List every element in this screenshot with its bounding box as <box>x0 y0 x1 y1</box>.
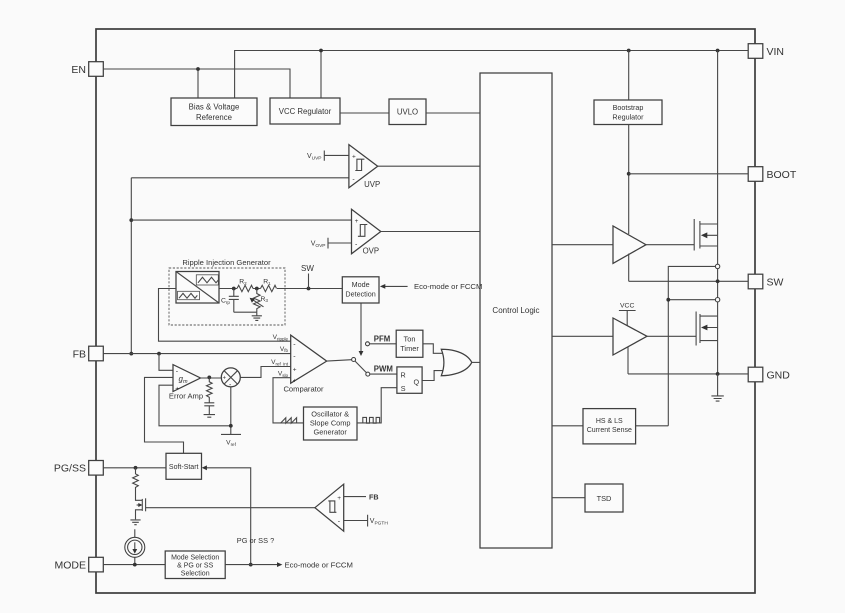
svg-text:Ripple Injection Generator: Ripple Injection Generator <box>182 258 271 267</box>
svg-text:R: R <box>401 371 406 380</box>
svg-text:Vslp: Vslp <box>278 371 289 378</box>
svg-text:SW: SW <box>301 264 314 273</box>
svg-text:VPGTH: VPGTH <box>370 518 389 527</box>
svg-text:+: + <box>352 153 356 160</box>
resistor R2 <box>237 279 253 292</box>
svg-text:Control Logic: Control Logic <box>492 306 539 315</box>
wire PG/SS pin to Soft-Start <box>103 466 166 470</box>
gate OR <box>441 349 472 375</box>
pin BOOT <box>748 167 797 182</box>
op-amp error amp <box>169 365 203 401</box>
wire UVP output to control logic <box>378 165 480 167</box>
svg-text:BOOT: BOOT <box>767 169 797 181</box>
ground compensation <box>204 415 215 418</box>
comparator PG (power good) <box>315 484 344 531</box>
chip outline frame <box>96 29 755 593</box>
svg-text:OVP: OVP <box>363 247 379 256</box>
wire Vslp from oscillator to comparator <box>273 378 304 423</box>
svg-text:R3: R3 <box>261 296 269 303</box>
svg-text:HS & LS: HS & LS <box>596 418 623 425</box>
wire UVP inverting input <box>131 177 349 179</box>
block VCC Regulator <box>270 98 340 124</box>
svg-text:VOVP: VOVP <box>311 241 326 250</box>
wire control logic to HS driver <box>552 244 613 246</box>
wire HS driver low rail to SW <box>628 254 630 282</box>
svg-text:+: + <box>293 366 297 373</box>
node HS current sense tap <box>715 264 719 268</box>
svg-text:+: + <box>355 218 359 225</box>
svg-text:+: + <box>337 495 341 502</box>
wire HS driver to HS MOSFET gate <box>646 244 694 246</box>
svg-text:UVLO: UVLO <box>397 108 418 117</box>
svg-text:Mode: Mode <box>352 280 370 289</box>
svg-text:Selection: Selection <box>181 571 210 578</box>
wire mode selection output (arrow to Eco-mode or FCCM) <box>225 560 353 569</box>
svg-text:EN: EN <box>71 64 86 76</box>
block Mode Selection & PG or SS Selection <box>165 551 225 579</box>
svg-text:Current Sense: Current Sense <box>587 427 632 434</box>
svg-text:PFM: PFM <box>374 334 390 343</box>
transistor PG MOSFET <box>136 498 146 519</box>
wire FB net <box>103 352 290 356</box>
svg-text:VIN: VIN <box>767 46 785 58</box>
block TSD <box>585 484 623 512</box>
wire multiplier to comparator Vref_int <box>240 367 290 378</box>
wire PFM contact to Ton Timer <box>370 343 397 345</box>
node LS current sense tap <box>715 298 719 302</box>
wire ripple RC net <box>219 287 342 291</box>
ground under R3 <box>252 312 262 320</box>
svg-text:Vref_int: Vref_int <box>271 359 289 366</box>
wire GND net <box>628 372 748 376</box>
sawtooth waveform icon <box>281 418 297 424</box>
svg-text:Vfb: Vfb <box>280 346 289 353</box>
capacitor compensation <box>204 399 214 414</box>
op-amp LS gate driver <box>613 318 647 355</box>
block Bias & Voltage Reference <box>171 98 257 126</box>
ground PG MOSFET <box>130 520 140 525</box>
svg-text:VUVP: VUVP <box>307 153 322 162</box>
node VUVP reference <box>307 151 349 162</box>
pin PG/SS <box>54 461 103 476</box>
svg-text:VCC: VCC <box>620 303 634 310</box>
multiplier/summer node <box>221 368 240 389</box>
wire OR gate to control logic <box>472 361 480 363</box>
svg-text:Ton: Ton <box>404 335 416 344</box>
wire soft-start to error amp mid input <box>145 377 184 453</box>
wire VIN rail to bootstrap regulator <box>628 51 630 101</box>
svg-text:Slope Comp: Slope Comp <box>310 419 351 428</box>
block RS latch <box>397 367 422 393</box>
wire comparator output to switch pivot <box>327 360 352 361</box>
svg-text:Bootstrap: Bootstrap <box>613 103 644 112</box>
node VPGTH reference <box>344 515 389 527</box>
svg-text:& PG or SS: & PG or SS <box>177 563 214 570</box>
resistor compensation <box>207 377 213 399</box>
wire UVLO to control logic <box>426 112 480 114</box>
wire current sense taps riser <box>666 266 715 425</box>
switch PFM/PWM select <box>352 334 393 376</box>
svg-text:TSD: TSD <box>597 494 612 503</box>
node FB input to PG comparator <box>344 493 379 502</box>
wire MODE pin to mode selection <box>103 563 165 567</box>
svg-text:Soft-Start: Soft-Start <box>169 464 199 471</box>
pulse waveform icon <box>363 417 380 423</box>
comparator main PWM comparator <box>283 335 326 393</box>
svg-text:MODE: MODE <box>55 560 87 572</box>
svg-text:Error Amp: Error Amp <box>169 391 203 400</box>
svg-text:Detection: Detection <box>345 290 375 299</box>
wire PG comparator output to MOSFET gate <box>146 507 315 509</box>
ground power stage <box>711 374 723 401</box>
svg-text:Vripple: Vripple <box>273 334 289 341</box>
wire LS driver low rail to GND <box>627 347 629 374</box>
svg-text:Eco-mode or FCCM: Eco-mode or FCCM <box>285 560 353 569</box>
svg-text:Oscillator &: Oscillator & <box>311 410 349 419</box>
node VOVP reference <box>311 238 352 250</box>
wire PWM contact to RS latch R <box>370 373 397 375</box>
block Control Logic <box>480 73 552 548</box>
svg-text:Reference: Reference <box>196 113 232 122</box>
block Soft-Start <box>166 453 202 479</box>
wire VCC Regulator to UVLO <box>340 112 389 114</box>
svg-text:PG or SS ?: PG or SS ? <box>237 536 274 545</box>
svg-text:SW: SW <box>767 277 784 289</box>
block UVLO <box>389 99 426 125</box>
transistor HS MOSFET <box>694 219 717 251</box>
wire EN to bias/vcc-regulator <box>103 67 290 98</box>
ripple injection generator dashed box <box>169 258 285 325</box>
block Ton Timer <box>396 330 423 357</box>
op-amp HS gate driver <box>613 226 646 263</box>
node VCC for LS driver <box>619 303 636 326</box>
comparator UVP <box>349 145 380 189</box>
node Vref <box>221 387 241 447</box>
pin GND <box>748 367 790 382</box>
wire RS latch Q to OR gate <box>422 371 446 381</box>
block Bootstrap Regulator <box>594 100 662 125</box>
comparator OVP <box>352 209 381 255</box>
wire error amp + input to Vref node <box>159 385 231 426</box>
block Mode Detection <box>342 277 379 303</box>
wire control logic to current sense <box>552 425 583 427</box>
wire current sense to riser <box>636 425 669 427</box>
svg-text:Q: Q <box>414 378 420 387</box>
svg-text:PWM: PWM <box>374 365 393 374</box>
wire VIN rail <box>235 49 749 98</box>
wire VIN to HS MOSFET drain chain <box>717 51 719 374</box>
wire Ton Timer to OR gate <box>423 344 446 354</box>
wire Crp to R3 bottom <box>234 311 257 313</box>
node SW label tick <box>301 264 314 289</box>
svg-text:Mode Selection: Mode Selection <box>171 555 219 562</box>
ripple waveform transform block <box>176 272 219 304</box>
wire Eco-mode or FCCM into Mode Detection (arrow) <box>380 282 482 291</box>
svg-text:S: S <box>401 384 406 393</box>
current source MODE detect <box>125 529 145 564</box>
pin VIN <box>748 44 784 59</box>
wire FB to error amp inverting input <box>159 354 173 371</box>
svg-text:GND: GND <box>767 370 791 382</box>
svg-text:Generator: Generator <box>314 428 348 437</box>
block Oscillator & Slope Comp Generator <box>304 407 358 440</box>
wire bootstrap to BOOT and HS driver rail <box>627 125 631 235</box>
resistor PG pull-up <box>133 468 139 499</box>
resistor R3 (adjustable) <box>250 289 269 313</box>
svg-text:+: + <box>293 377 297 384</box>
svg-text:FB: FB <box>369 493 379 502</box>
transistor LS MOSFET <box>696 312 718 346</box>
wire LS driver to LS MOSFET gate <box>647 335 696 337</box>
wire mode detection to switch (arrow) <box>359 303 364 356</box>
wire PG-or-SS select into Soft-Start (arrow) <box>202 465 274 566</box>
svg-text:Vref: Vref <box>226 440 236 447</box>
svg-text:Timer: Timer <box>400 344 419 353</box>
pin EN <box>71 62 103 77</box>
svg-text:Crp: Crp <box>221 298 230 305</box>
svg-text:Regulator: Regulator <box>612 113 644 122</box>
svg-text:FB: FB <box>73 349 86 361</box>
svg-text:VCC Regulator: VCC Regulator <box>279 107 332 116</box>
svg-text:UVP: UVP <box>364 180 380 189</box>
svg-text:R2: R2 <box>239 279 247 286</box>
svg-text:Bias & Voltage: Bias & Voltage <box>189 103 240 112</box>
capacitor Crp <box>221 289 239 313</box>
node FB riser to UVP/OVP <box>129 178 133 356</box>
wire control logic to LS driver <box>552 335 613 337</box>
block HS & LS Current Sense <box>583 409 636 444</box>
wire OVP output to control logic <box>381 231 480 233</box>
wire BOOT net <box>629 173 749 175</box>
pin SW <box>748 274 783 289</box>
pin FB <box>73 346 104 361</box>
resistor R1 <box>261 279 277 292</box>
wire control logic to TSD <box>552 497 585 499</box>
svg-text:+: + <box>223 376 227 382</box>
svg-text:Eco-mode or FCCM: Eco-mode or FCCM <box>414 282 482 291</box>
wire OVP non-inverting input <box>131 219 351 221</box>
svg-text:PG/SS: PG/SS <box>54 463 86 475</box>
svg-text:R1: R1 <box>263 279 271 286</box>
svg-text:Comparator: Comparator <box>283 385 324 394</box>
wire ripple block output to comparator (Vripple) <box>159 289 291 342</box>
wire oscillator to RS latch S <box>357 388 397 423</box>
pin MODE <box>55 557 104 572</box>
wire error amp output to multiplier <box>201 376 222 380</box>
wire SW net <box>629 279 749 283</box>
